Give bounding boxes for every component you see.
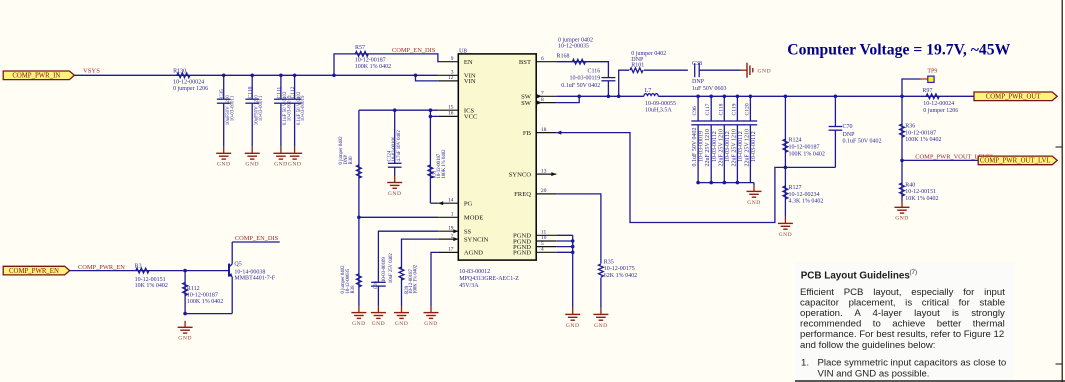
svg-text:C70: C70 — [843, 124, 853, 130]
wire FREQ line — [556, 194, 601, 264]
svg-text:0 jumper 1206: 0 jumper 1206 — [923, 108, 958, 114]
svg-text:100K 1% 0402: 100K 1% 0402 — [905, 137, 941, 143]
capacitor C70 DNP — [785, 96, 881, 167]
svg-text:0.1uF 50V 0402: 0.1uF 50V 0402 — [843, 139, 882, 145]
pin 16 VCC — [438, 111, 478, 121]
svg-text:100K 1% 0402: 100K 1% 0402 — [442, 149, 447, 179]
wire BST line — [556, 62, 608, 78]
svg-text:10-03-00112: 10-03-00112 — [712, 131, 718, 162]
capacitor C111 — [274, 75, 292, 147]
wire PG branch — [430, 202, 438, 204]
capacitor C112 — [288, 75, 306, 147]
ground below C124 — [394, 176, 396, 183]
pin 17 AGND — [438, 247, 483, 257]
junction dots SW node — [577, 95, 620, 99]
wire VSYS input rail — [74, 74, 438, 76]
svg-text:R35: R35 — [604, 259, 614, 265]
test point TP9 — [902, 69, 937, 97]
resistor R30 vertical — [339, 110, 361, 217]
capacitor C116 — [561, 69, 615, 97]
svg-text:1: 1 — [451, 212, 454, 218]
capacitor C38 DNP — [692, 61, 741, 92]
wire VIN pin12 branch — [416, 75, 439, 81]
junction dot base node — [183, 269, 187, 273]
svg-text:Place symmetric input capacito: Place symmetric input capacitors as clos… — [818, 358, 1007, 369]
ground below R38 — [358, 306, 360, 313]
junction dots PGND bus — [571, 239, 575, 254]
svg-text:10-03-00112: 10-03-00112 — [725, 131, 731, 162]
svg-text:10-12-00187: 10-12-00187 — [789, 145, 820, 151]
wire AGND line — [431, 252, 438, 306]
svg-text:1uF 50V 0603: 1uF 50V 0603 — [692, 86, 727, 92]
svg-text:GND: GND — [288, 162, 302, 168]
pin 7 SW — [521, 91, 556, 101]
svg-text:10uH,3.5A: 10uH,3.5A — [645, 108, 672, 114]
svg-text:U8: U8 — [459, 47, 467, 54]
ground below C112 — [294, 147, 296, 154]
pin 2 SYNCIN — [438, 233, 488, 243]
svg-text:COMP_PWR_IN: COMP_PWR_IN — [12, 73, 60, 80]
svg-text:PCB Layout Guidelines: PCB Layout Guidelines — [801, 270, 911, 281]
svg-text:R3: R3 — [135, 264, 142, 270]
wire SW pin7 line — [556, 95, 644, 97]
svg-text:19: 19 — [448, 225, 454, 231]
svg-text:R36: R36 — [905, 124, 915, 130]
wire ICS line — [359, 109, 438, 111]
ground below R39 — [401, 306, 403, 313]
svg-text:20: 20 — [541, 188, 547, 194]
svg-text:DNP: DNP — [843, 132, 856, 138]
svg-text:AGND: AGND — [464, 250, 483, 257]
svg-text:VSYS: VSYS — [83, 67, 100, 74]
svg-text:MODE: MODE — [464, 215, 483, 222]
resistor R124 — [783, 96, 825, 167]
svg-text:C110: C110 — [248, 86, 254, 98]
port COMP_PWR_EN — [3, 266, 70, 275]
svg-text:1.: 1. — [801, 358, 809, 369]
svg-text:R168: R168 — [557, 54, 570, 60]
pin 6 BST — [519, 56, 556, 66]
wire FB sense route — [556, 133, 785, 223]
svg-text:10-12-00187: 10-12-00187 — [187, 292, 218, 298]
svg-text:R101: R101 — [631, 62, 644, 68]
svg-text:C38: C38 — [692, 61, 702, 67]
ground below C111 — [280, 147, 282, 154]
svg-text:capacitor placement, is critic: capacitor placement, is critical for sta… — [800, 298, 1005, 309]
svg-text:MMBT4401-7-F: MMBT4401-7-F — [234, 276, 275, 282]
svg-text:10-12-00187: 10-12-00187 — [355, 57, 386, 63]
svg-text:GND: GND — [779, 232, 793, 238]
wire SS line — [378, 231, 438, 282]
resistor R101 DNP — [630, 51, 688, 73]
svg-text:22uF 25V 1210: 22uF 25V 1210 — [731, 129, 737, 167]
svg-text:EN: EN — [464, 59, 473, 66]
U8 part number text — [459, 269, 519, 289]
svg-text:GND: GND — [395, 321, 409, 327]
svg-text:performance. For best results,: performance. For best results, refer to … — [800, 329, 1004, 340]
pin 15 ICS — [438, 104, 474, 114]
svg-text:R38: R38 — [351, 285, 356, 294]
svg-text:10-12-00151: 10-12-00151 — [905, 189, 936, 195]
PCB layout guidelines note — [795, 262, 1014, 380]
pin 1 MODE — [438, 212, 483, 222]
svg-text:Computer Voltage = 19.7V, ~45W: Computer Voltage = 19.7V, ~45W — [787, 41, 1010, 58]
svg-text:10K 1% 0402: 10K 1% 0402 — [135, 283, 168, 289]
svg-text:12: 12 — [448, 75, 454, 81]
svg-text:0 jumper 1206: 0 jumper 1206 — [173, 86, 208, 92]
resistor R130 — [173, 68, 208, 92]
svg-text:VIN and GND as possible.: VIN and GND as possible. — [818, 368, 930, 379]
junction dot emitter rail — [183, 312, 187, 316]
svg-text:R40: R40 — [905, 182, 915, 188]
inductor L7 — [644, 88, 676, 114]
ground below C35 — [223, 147, 225, 154]
svg-text:62K 1% 0402: 62K 1% 0402 — [604, 273, 637, 279]
svg-text:10-83-00012: 10-83-00012 — [459, 269, 490, 275]
svg-text:100K 1% 0402: 100K 1% 0402 — [187, 299, 223, 305]
svg-text:PGND: PGND — [513, 250, 531, 257]
ground below PGND — [572, 308, 574, 315]
svg-text:FREQ: FREQ — [514, 191, 531, 198]
resistor R97 — [922, 88, 958, 114]
ground below R127 — [784, 217, 786, 224]
wire EN branch — [334, 54, 438, 75]
transistor Q5 — [185, 242, 280, 314]
svg-text:COMP_PWR_OUT: COMP_PWR_OUT — [986, 94, 1042, 101]
wire PGND bus — [556, 235, 572, 308]
capacitor C120 — [744, 96, 758, 182]
pin 9 EN — [438, 56, 473, 66]
wire output rail — [658, 95, 974, 97]
svg-text:0.1uF 50V 0402: 0.1uF 50V 0402 — [692, 127, 698, 166]
wire COMP_PWR_VOUT_LEVEL — [902, 159, 978, 161]
svg-text:0.1uF 50V 0402: 0.1uF 50V 0402 — [561, 83, 600, 89]
svg-text:10-12-00024: 10-12-00024 — [923, 101, 954, 107]
capacitor C124 — [388, 110, 403, 176]
resistor R57 — [355, 45, 391, 70]
svg-text:R30: R30 — [349, 156, 354, 165]
pin 8 SW — [521, 97, 556, 107]
port COMP_PWR_OUT_LVL — [978, 156, 1057, 165]
svg-text:14: 14 — [448, 197, 454, 203]
resistor R112 — [183, 271, 224, 314]
resistor R127 — [783, 167, 823, 217]
svg-text:FB: FB — [523, 130, 532, 137]
op-amp U8 MPQ4313 regulator body — [458, 47, 536, 260]
svg-text:10-12-00175: 10-12-00175 — [604, 266, 635, 272]
svg-text:SYNCIN: SYNCIN — [464, 236, 489, 243]
capacitor C36 — [371, 253, 394, 307]
ground below output caps — [747, 183, 762, 206]
ground below C36 — [377, 306, 379, 313]
svg-text:10-12-00234: 10-12-00234 — [789, 192, 820, 198]
svg-text:R127: R127 — [789, 185, 802, 191]
svg-text:6: 6 — [541, 56, 544, 62]
svg-text:100K 1% 0402: 100K 1% 0402 — [789, 152, 825, 158]
svg-text:R112: R112 — [187, 286, 200, 292]
svg-text:PG: PG — [464, 201, 473, 208]
capacitor C117 — [704, 96, 718, 182]
svg-text:13: 13 — [541, 168, 547, 174]
svg-text:Q5: Q5 — [234, 261, 241, 267]
svg-text:GND: GND — [178, 336, 192, 342]
resistor R3 — [135, 264, 168, 290]
svg-text:R57: R57 — [355, 45, 365, 51]
ground below C110 — [251, 147, 253, 154]
svg-text:15: 15 — [448, 104, 454, 110]
svg-text:45V/3A: 45V/3A — [459, 283, 479, 289]
svg-text:R130: R130 — [173, 68, 186, 74]
wire SW pin8 riser — [556, 96, 579, 102]
capacitor C118 — [718, 96, 732, 182]
svg-text:COMP_PWR_OUT_LVL: COMP_PWR_OUT_LVL — [980, 158, 1051, 165]
svg-text:10-03-00019: 10-03-00019 — [301, 95, 306, 121]
svg-text:C96: C96 — [692, 106, 698, 116]
svg-text:GND: GND — [747, 200, 761, 206]
svg-text:and follow the guidelines belo: and follow the guidelines below: — [800, 340, 935, 351]
svg-text:10-03-00112: 10-03-00112 — [751, 131, 757, 162]
resistor R35 — [599, 259, 638, 308]
svg-text:10-03-00112: 10-03-00112 — [738, 131, 744, 162]
junction dot VOUT level node — [900, 159, 904, 163]
svg-text:7: 7 — [541, 91, 544, 97]
svg-text:17: 17 — [448, 247, 454, 253]
pin 18 FB — [523, 127, 556, 137]
svg-text:operation. A 4-layer layout is: operation. A 4-layer layout is strongly — [800, 308, 1005, 319]
svg-text:C120: C120 — [744, 103, 750, 115]
svg-text:C116: C116 — [588, 69, 601, 75]
svg-text:GND: GND — [566, 323, 580, 329]
pin 10 PGND — [513, 235, 556, 245]
capacitor C119 — [731, 96, 745, 182]
svg-text:C118: C118 — [718, 103, 724, 115]
junction dots ICS VCC — [393, 108, 432, 118]
svg-text:L7: L7 — [645, 88, 652, 94]
svg-text:COMP_PWR_EN: COMP_PWR_EN — [78, 264, 125, 271]
ground right of C38 rotated — [741, 69, 748, 71]
svg-text:GND: GND — [895, 216, 909, 222]
port COMP_PWR_OUT — [974, 92, 1057, 101]
resistor R36 — [900, 96, 942, 160]
port COMP_PWR_IN — [3, 71, 74, 80]
svg-text:VIN: VIN — [464, 78, 476, 85]
svg-text:10K 1% 0402: 10K 1% 0402 — [905, 196, 938, 202]
resistor R31 vertical — [428, 116, 447, 203]
pin 13 SYNCO — [509, 168, 557, 178]
resistor R168 — [557, 38, 594, 65]
svg-text:10-14-00038: 10-14-00038 — [234, 269, 265, 275]
junction dot FB node — [784, 166, 788, 170]
svg-text:GND: GND — [274, 162, 288, 168]
svg-text:C112: C112 — [290, 86, 296, 98]
ground below R40 — [901, 201, 903, 208]
svg-text:C35: C35 — [219, 89, 225, 99]
svg-text:9: 9 — [451, 56, 454, 62]
svg-text:recommended to achieve better: recommended to achieve better thermal — [800, 319, 1005, 330]
junction dot MODE — [357, 216, 361, 220]
svg-text:BST: BST — [519, 59, 531, 66]
capacitor C35 — [217, 75, 235, 147]
pin 14 PG — [438, 197, 472, 207]
svg-text:10-03-00109: 10-03-00109 — [382, 257, 387, 282]
svg-text:GND: GND — [594, 323, 608, 329]
svg-text:GND: GND — [424, 321, 438, 327]
svg-text:C36: C36 — [374, 280, 379, 289]
pin 19 SS — [438, 225, 471, 235]
svg-text:SYNCO: SYNCO — [509, 171, 532, 178]
svg-text:10-03-00019: 10-03-00019 — [699, 131, 705, 162]
svg-text:C117: C117 — [705, 103, 711, 115]
svg-text:COMP_EN_DIS: COMP_EN_DIS — [235, 235, 279, 242]
svg-text:10-12-00151: 10-12-00151 — [135, 277, 166, 283]
svg-text:22uF 25V 1210: 22uF 25V 1210 — [718, 129, 724, 167]
pin 20 FREQ — [514, 188, 556, 198]
svg-text:GND: GND — [758, 69, 772, 75]
svg-text:C111: C111 — [276, 87, 282, 99]
svg-text:8: 8 — [541, 97, 544, 103]
svg-text:DNP: DNP — [692, 79, 705, 85]
svg-text:MPQ4313GRE-AEC1-Z: MPQ4313GRE-AEC1-Z — [459, 276, 519, 282]
svg-text:R124: R124 — [789, 138, 802, 144]
wire enable line — [70, 270, 229, 272]
svg-text:GND: GND — [352, 321, 366, 327]
svg-text:VCC: VCC — [464, 114, 478, 121]
svg-text:4.7uF 10V 0402: 4.7uF 10V 0402 — [397, 130, 402, 162]
svg-text:GND: GND — [217, 162, 231, 168]
wire R101 riser — [619, 70, 630, 96]
capacitor C110 — [245, 75, 263, 147]
svg-text:C119: C119 — [731, 103, 737, 115]
svg-text:10-12-00187: 10-12-00187 — [905, 130, 936, 136]
svg-text:COMP_EN_DIS: COMP_EN_DIS — [392, 47, 436, 54]
svg-text:Efficient PCB layout, especial: Efficient PCB layout, especially for inp… — [800, 287, 1005, 298]
sheet border right edge — [1056, 0, 1063, 382]
junction dots cap ground rail — [696, 181, 739, 185]
svg-text:(7): (7) — [910, 269, 918, 276]
pin 5 PGND — [513, 241, 556, 251]
svg-text:4: 4 — [541, 247, 544, 253]
resistor R38 vertical — [341, 217, 361, 306]
pin 4 PGND — [513, 247, 556, 257]
svg-text:10-12-00024: 10-12-00024 — [173, 79, 204, 85]
svg-text:GND: GND — [245, 162, 259, 168]
svg-text:10nF 25V 0402: 10nF 25V 0402 — [389, 253, 394, 284]
svg-text:10-03-00011: 10-03-00011 — [230, 95, 235, 121]
svg-text:R97: R97 — [922, 88, 932, 94]
pin 12 VIN — [438, 75, 476, 85]
junction dots output rail — [696, 95, 904, 99]
svg-text:TP9: TP9 — [927, 69, 937, 75]
svg-text:GND: GND — [372, 321, 386, 327]
svg-text:SW: SW — [521, 100, 532, 107]
pin 11 PGND — [513, 230, 556, 240]
svg-text:10-03-00011: 10-03-00011 — [259, 95, 264, 121]
svg-text:10-12-00035: 10-12-00035 — [558, 44, 589, 50]
wire VCC branch — [430, 110, 438, 116]
svg-text:10-03-00119: 10-03-00119 — [570, 76, 601, 82]
svg-text:100K 1% 0402: 100K 1% 0402 — [414, 264, 419, 294]
svg-text:16: 16 — [448, 111, 454, 117]
wire SYNCIN line — [402, 239, 439, 269]
wire MODE line — [359, 216, 438, 218]
svg-text:4.3K 1% 0402: 4.3K 1% 0402 — [789, 199, 824, 205]
svg-text:10-09-00055: 10-09-00055 — [645, 101, 676, 107]
svg-text:22uF 25V 1210: 22uF 25V 1210 — [705, 129, 711, 167]
pin 3 VIN — [438, 70, 476, 80]
ground below R112 — [184, 321, 186, 328]
pin arrows — [438, 94, 561, 241]
resistor R39 vertical — [399, 264, 419, 306]
junction dots input rail — [222, 74, 417, 78]
svg-text:COMP_PWR_EN: COMP_PWR_EN — [9, 268, 59, 275]
svg-text:SS: SS — [464, 229, 472, 236]
capacitor C96 — [691, 96, 705, 182]
svg-text:22uF 25V 1210: 22uF 25V 1210 — [744, 129, 750, 167]
wire output cap ground rail — [698, 182, 754, 184]
ground below AGND — [430, 306, 432, 313]
svg-text:18: 18 — [541, 127, 547, 133]
svg-text:100K 1% 0402: 100K 1% 0402 — [355, 64, 391, 70]
svg-text:GND: GND — [388, 191, 402, 197]
resistor R40 — [900, 160, 939, 202]
ground below R35 — [600, 308, 602, 315]
